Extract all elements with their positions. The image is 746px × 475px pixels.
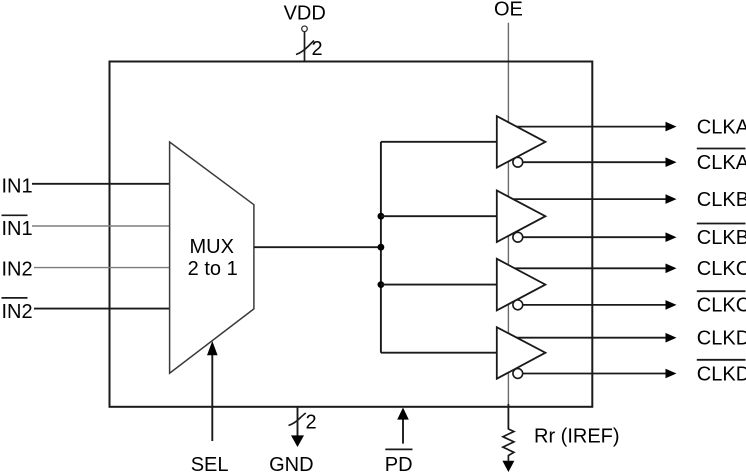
wire output CLKB (503, 198, 670, 200)
buffer C inverting bubble (513, 300, 523, 310)
buffer C triangle (497, 259, 546, 311)
buffer B triangle (497, 191, 546, 243)
buffer A triangle (497, 116, 546, 168)
label CLKB (697, 189, 746, 211)
label CLKC-bar with overbar (697, 291, 746, 317)
svg-text:IN1: IN1 (2, 176, 33, 198)
svg-text:Rr (IREF): Rr (IREF) (534, 425, 620, 447)
svg-text:OE: OE (494, 0, 523, 21)
arrowhead Rr to IREF (down) (502, 461, 514, 472)
wire VDD to box top (304, 32, 306, 62)
resistor Rr zigzag (503, 429, 514, 462)
label IN2 (2, 258, 33, 280)
terminal circle VDD (302, 26, 308, 32)
label Rr (IREF) (534, 425, 620, 447)
buffer D inverting bubble (513, 369, 523, 379)
svg-text:CLKD: CLKD (697, 328, 746, 350)
label IN1 (2, 176, 33, 198)
arrowhead CLKB (666, 194, 677, 204)
wire PD-bar with up arrow into box (397, 408, 409, 444)
wire output CLKA-bar (518, 161, 670, 163)
wire mux output to bus (254, 246, 381, 248)
svg-text:2 to 1: 2 to 1 (188, 258, 238, 280)
wire GND with down arrow (291, 407, 304, 447)
svg-text:VDD: VDD (284, 3, 326, 25)
junction dot buffer B tap (378, 213, 385, 220)
svg-text:CLKA: CLKA (697, 116, 746, 138)
arrowhead CLKD (666, 333, 677, 343)
mux U1 (2-to-1) trapezoid (170, 142, 254, 373)
label CLKA (697, 116, 746, 138)
wire SEL control with up arrow into mux (207, 341, 218, 441)
arrowhead CLKA-bar (666, 157, 677, 167)
svg-text:CLKD: CLKD (697, 363, 746, 385)
wire vertical distribution bus (380, 142, 382, 353)
svg-text:CLKB: CLKB (697, 189, 746, 211)
wire output CLKD (503, 337, 670, 339)
label VDD (284, 3, 326, 25)
arrowhead CLKA (666, 122, 677, 132)
arrowhead CLKC (666, 264, 677, 274)
svg-text:PD: PD (385, 454, 413, 475)
label IN1 (inverted, overbar) (2, 215, 33, 240)
label CLKD (697, 328, 746, 350)
buffer D triangle (497, 327, 546, 379)
wire output CLKA (503, 126, 670, 128)
svg-text:IN2: IN2 (2, 258, 33, 280)
label CLKA-bar with overbar (697, 149, 746, 175)
label OE (494, 0, 523, 21)
svg-text:MUX: MUX (189, 236, 233, 258)
wire output CLKD-bar (518, 373, 670, 375)
arrowhead CLKC-bar (666, 300, 677, 310)
svg-text:SEL: SEL (191, 454, 229, 475)
label CLKC (697, 258, 746, 280)
label GND (269, 454, 313, 475)
wire output CLKC (503, 267, 670, 269)
label SEL (191, 454, 229, 475)
svg-text:CLKB: CLKB (697, 227, 746, 249)
wire input IN1-bar (32, 225, 170, 227)
label IN2 (inverted, overbar) (2, 298, 33, 323)
svg-text:IN1: IN1 (2, 218, 33, 240)
buffer A inverting bubble (513, 157, 523, 167)
bus-width slash on VDD wire (296, 41, 314, 55)
svg-text:2: 2 (306, 412, 317, 434)
label PD-bar with overbar (385, 449, 413, 475)
wire output CLKB-bar (518, 236, 670, 238)
label CLKB-bar with overbar (697, 224, 746, 250)
wire buffer C input (381, 284, 497, 286)
wire input IN2-bar (34, 308, 170, 310)
svg-text:CLKC: CLKC (697, 258, 746, 280)
wire buffer A input (381, 141, 497, 143)
svg-text:IN2: IN2 (2, 301, 33, 323)
wire input IN1 (32, 183, 170, 185)
svg-text:2: 2 (312, 38, 323, 60)
arrowhead CLKB-bar (666, 232, 677, 242)
wire output CLKC-bar (518, 304, 670, 306)
bus-width label 2 (GND) (306, 412, 317, 434)
wire buffer D input (381, 352, 497, 354)
svg-text:GND: GND (269, 454, 313, 475)
label CLKD-bar with overbar (697, 360, 746, 386)
junction dot buffer C tap (378, 281, 385, 288)
buffer B inverting bubble (513, 232, 523, 242)
svg-text:CLKA: CLKA (697, 152, 746, 174)
wire OE vertical net (OE pin down through buffers to IREF pin) (507, 23, 509, 430)
junction dot at mux output (378, 244, 385, 251)
chip outline box (110, 62, 593, 407)
svg-text:CLKC: CLKC (697, 295, 746, 317)
arrowhead CLKD-bar (666, 369, 677, 379)
bus-width label 2 (VDD) (312, 38, 323, 60)
bus-width slash on GND wire (289, 413, 306, 426)
wire buffer B input (381, 215, 497, 217)
wire input IN2 (34, 267, 170, 269)
